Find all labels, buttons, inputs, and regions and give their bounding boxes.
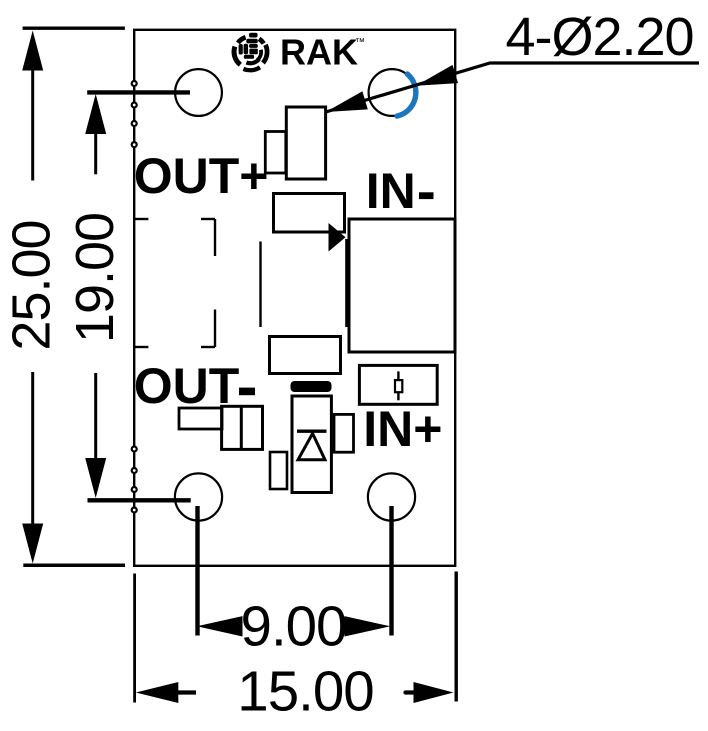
mounting hole top-right [369,69,416,116]
svg-text:9.00: 9.00 [241,595,347,658]
svg-text:IN+: IN+ [363,401,442,457]
hole highlight blue arc [397,74,416,116]
dimension arrows 9.00 [197,616,243,636]
svg-text:IN: IN [366,163,416,219]
PCB board outline [134,30,455,566]
capacitor bar (solid) [291,381,332,392]
leader line [326,63,699,112]
dimension line 19.00 lower segment [94,373,97,459]
component: flat rect left of OUT- group [179,408,222,429]
extension line through top-left hole (19.00) [87,90,190,94]
extension line below board left edge (15.00) [133,574,136,703]
extension line below board right edge (15.00) [455,572,458,702]
via dots on left edge (top group) [132,81,137,147]
via dots on left edge (bottom group) [132,447,137,513]
diode cathode bar [297,430,327,433]
svg-text:25.00: 25.00 [2,220,62,350]
component: top rectangle [286,107,325,179]
dimension line 19.00 upper segment [94,120,97,174]
component: rectangle above capacitor [270,337,341,374]
svg-text:™: ™ [355,37,365,48]
wire segment left of IC [259,242,261,328]
svg-text:4-Ø2.20: 4-Ø2.20 [505,7,693,67]
component: middle rectangle [274,194,345,233]
mounting hole top-left [175,69,222,116]
component: two-cell rect [222,406,263,449]
mounting hole bottom-left [175,473,222,520]
extension line bottom (25.00) [23,563,125,567]
component: small rect right of diode [334,414,354,452]
RAK logo [234,37,267,70]
component: large IC rectangle [349,219,455,352]
component: small rect beside top component [265,132,286,174]
svg-text:RAK: RAK [280,32,358,73]
extension line below bottom-right hole (9.00) [389,506,393,636]
dimension arrow 15.00 right [414,682,454,703]
extension line below bottom-left hole (9.00) [195,506,199,636]
svg-text:19.00: 19.00 [65,213,125,343]
diode triangle [298,434,325,460]
leader arrowhead at component [326,91,368,112]
polarity arrow beside middle rectangle [329,223,346,252]
extension line top (25.00) [23,27,125,30]
dimension arrow 15.00 left [136,682,179,703]
dimension line 25.00 lower segment [31,372,34,525]
dimension line 25.00 upper segment [31,60,34,181]
component: small rect left of diode [270,452,287,489]
extension line through bottom-left hole (19.00) [88,498,191,502]
dashed component outline [135,219,215,347]
leader arrowhead at hole [416,65,458,86]
mounting hole bottom-right [368,473,415,520]
svg-text:15.00: 15.00 [237,660,373,723]
svg-text:OUT+: OUT+ [134,148,269,204]
wire segment along IC left side [345,239,348,327]
fuse symbol [397,371,399,400]
component: fuse box [359,365,437,404]
component: diode body [292,396,331,493]
